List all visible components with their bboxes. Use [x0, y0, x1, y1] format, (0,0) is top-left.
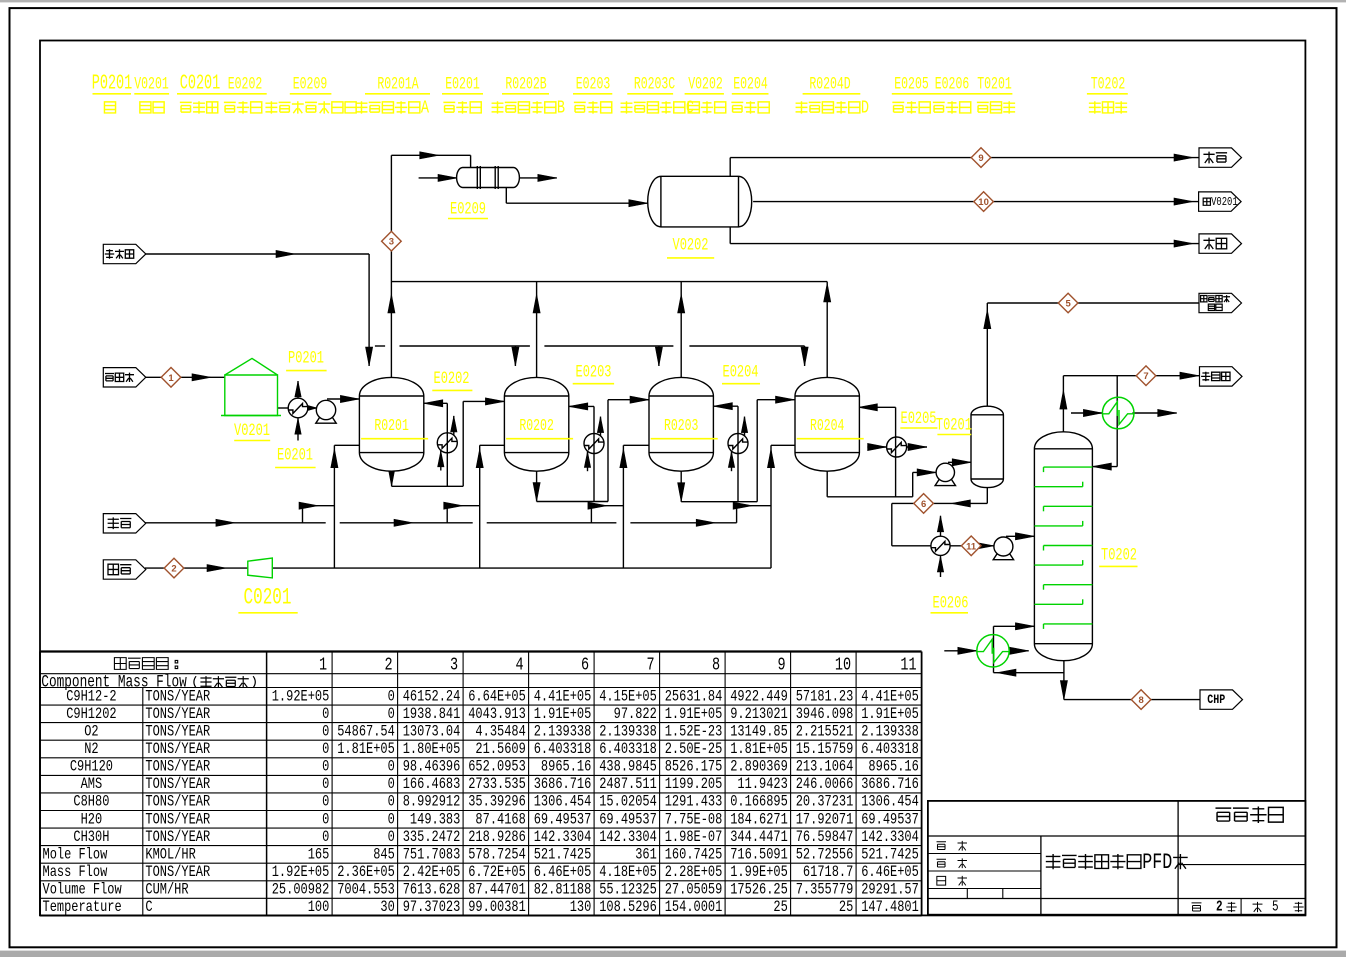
- svg-text:R0202B: R0202B: [505, 74, 546, 94]
- svg-text:1938.841: 1938.841: [403, 705, 461, 723]
- svg-text:335.2472: 335.2472: [403, 828, 461, 846]
- svg-text:H20: H20: [81, 811, 103, 829]
- svg-text:P0201: P0201: [288, 350, 324, 369]
- svg-text:C8H80: C8H80: [73, 793, 109, 811]
- svg-text:69.49537: 69.49537: [861, 811, 919, 829]
- svg-text:13073.04: 13073.04: [403, 723, 461, 741]
- svg-text:142.3304: 142.3304: [861, 828, 919, 846]
- svg-text:20.37231: 20.37231: [796, 793, 854, 811]
- svg-text:CUM/HR: CUM/HR: [145, 881, 188, 899]
- svg-text:6.46E+05: 6.46E+05: [534, 864, 592, 882]
- svg-text:521.7425: 521.7425: [861, 846, 919, 864]
- svg-text:O2: O2: [84, 723, 98, 741]
- svg-text:13149.85: 13149.85: [730, 723, 788, 741]
- svg-text:0: 0: [388, 688, 395, 706]
- svg-text:0: 0: [322, 741, 329, 759]
- svg-text:7.355779: 7.355779: [796, 881, 854, 899]
- svg-text:N2: N2: [84, 741, 98, 759]
- svg-text:97.822: 97.822: [614, 705, 657, 723]
- svg-text:2.42E+05: 2.42E+05: [403, 864, 461, 882]
- svg-text:344.4471: 344.4471: [730, 828, 788, 846]
- svg-text:V0202: V0202: [673, 237, 709, 256]
- svg-text:845: 845: [373, 846, 395, 864]
- svg-text:4: 4: [515, 655, 523, 675]
- svg-text:213.1064: 213.1064: [796, 758, 854, 776]
- svg-text:E0206: E0206: [933, 595, 969, 614]
- svg-text:438.9845: 438.9845: [599, 758, 657, 776]
- svg-text:Temperature: Temperature: [43, 899, 122, 917]
- svg-text:1: 1: [319, 655, 327, 675]
- svg-text:T0202: T0202: [1101, 547, 1137, 566]
- svg-text:2.139338: 2.139338: [861, 723, 919, 741]
- svg-text:6.403318: 6.403318: [534, 741, 592, 759]
- svg-text:184.6271: 184.6271: [730, 811, 788, 829]
- svg-text:C0201: C0201: [180, 72, 220, 96]
- svg-text:C9H12-2: C9H12-2: [66, 688, 116, 706]
- svg-text:218.9286: 218.9286: [468, 828, 526, 846]
- svg-text:55.12325: 55.12325: [599, 881, 657, 899]
- svg-text:A: A: [421, 98, 429, 118]
- svg-text:0: 0: [322, 705, 329, 723]
- svg-text:0: 0: [322, 723, 329, 741]
- svg-text:1.81E+05: 1.81E+05: [730, 741, 788, 759]
- svg-text:2.890369: 2.890369: [730, 758, 788, 776]
- svg-text:R0201A: R0201A: [377, 74, 418, 94]
- svg-text:87.4168: 87.4168: [475, 811, 525, 829]
- svg-text:578.7254: 578.7254: [468, 846, 526, 864]
- svg-text:6: 6: [921, 499, 926, 510]
- svg-text:TONS/YEAR: TONS/YEAR: [145, 864, 210, 882]
- svg-text:246.0066: 246.0066: [796, 776, 854, 794]
- svg-text:E0206: E0206: [935, 74, 969, 94]
- svg-text:6.403318: 6.403318: [861, 741, 919, 759]
- svg-text:149.383: 149.383: [410, 811, 460, 829]
- svg-text:C: C: [686, 98, 694, 118]
- svg-text:29291.57: 29291.57: [861, 881, 919, 899]
- svg-text:4.35484: 4.35484: [475, 723, 525, 741]
- svg-text:P0201: P0201: [92, 72, 132, 96]
- svg-text:0: 0: [388, 793, 395, 811]
- svg-text:TONS/YEAR: TONS/YEAR: [145, 758, 210, 776]
- svg-text:B: B: [557, 98, 565, 118]
- svg-text:46152.24: 46152.24: [403, 688, 461, 706]
- svg-text:1.80E+05: 1.80E+05: [403, 741, 461, 759]
- svg-text:C: C: [145, 899, 152, 917]
- svg-text:25631.84: 25631.84: [665, 688, 723, 706]
- svg-text:2.139338: 2.139338: [599, 723, 657, 741]
- svg-text:61718.7: 61718.7: [803, 864, 853, 882]
- svg-text:8: 8: [712, 655, 720, 675]
- svg-text:T0201: T0201: [936, 417, 972, 436]
- svg-text:76.59847: 76.59847: [796, 828, 854, 846]
- svg-text:7613.628: 7613.628: [403, 881, 461, 899]
- svg-text:521.7425: 521.7425: [534, 846, 592, 864]
- svg-text:0: 0: [322, 793, 329, 811]
- svg-text:2: 2: [171, 564, 176, 575]
- svg-text:E0203: E0203: [576, 364, 612, 383]
- svg-text:0: 0: [322, 758, 329, 776]
- svg-text:87.44701: 87.44701: [468, 881, 526, 899]
- svg-text:E0202: E0202: [228, 74, 262, 94]
- svg-text:TONS/YEAR: TONS/YEAR: [145, 776, 210, 794]
- svg-text:100: 100: [308, 899, 330, 917]
- svg-text:3: 3: [389, 237, 394, 248]
- svg-text:5: 5: [1065, 299, 1071, 310]
- svg-text:11: 11: [966, 541, 977, 552]
- svg-text:3: 3: [450, 655, 458, 675]
- svg-text:8965.16: 8965.16: [868, 758, 918, 776]
- svg-text:R0201: R0201: [374, 417, 408, 436]
- svg-text:1291.433: 1291.433: [665, 793, 723, 811]
- svg-text:15.15759: 15.15759: [796, 741, 854, 759]
- svg-text:5: 5: [1272, 898, 1279, 915]
- svg-text:99.00381: 99.00381: [468, 899, 526, 917]
- svg-text:25: 25: [773, 899, 787, 917]
- svg-text:1.92E+05: 1.92E+05: [272, 688, 330, 706]
- svg-text:E0201: E0201: [445, 74, 479, 94]
- svg-text:361: 361: [635, 846, 657, 864]
- svg-text:0: 0: [388, 776, 395, 794]
- svg-text:2.36E+05: 2.36E+05: [337, 864, 395, 882]
- svg-text:716.5091: 716.5091: [730, 846, 788, 864]
- svg-text:3686.716: 3686.716: [534, 776, 592, 794]
- svg-text:2.215521: 2.215521: [796, 723, 854, 741]
- svg-text:6.64E+05: 6.64E+05: [468, 688, 526, 706]
- svg-text:E0205: E0205: [894, 74, 928, 94]
- svg-text:30: 30: [380, 899, 394, 917]
- svg-text:3946.098: 3946.098: [796, 705, 854, 723]
- svg-text:6.46E+05: 6.46E+05: [861, 864, 919, 882]
- svg-text:108.5296: 108.5296: [599, 899, 657, 917]
- svg-text:Mole Flow: Mole Flow: [43, 846, 108, 864]
- svg-text:17.92071: 17.92071: [796, 811, 854, 829]
- svg-text:1.91E+05: 1.91E+05: [534, 705, 592, 723]
- svg-text:4.15E+05: 4.15E+05: [599, 688, 657, 706]
- svg-text:PFD: PFD: [1142, 848, 1172, 874]
- svg-text:54867.54: 54867.54: [337, 723, 395, 741]
- svg-text:69.49537: 69.49537: [534, 811, 592, 829]
- svg-text:52.72556: 52.72556: [796, 846, 854, 864]
- svg-text:1: 1: [168, 373, 174, 384]
- svg-text:6: 6: [581, 655, 589, 675]
- svg-text:R0203C: R0203C: [634, 74, 675, 94]
- svg-text:E0201: E0201: [277, 447, 313, 466]
- svg-text:1.91E+05: 1.91E+05: [665, 705, 723, 723]
- svg-text:Mass Flow: Mass Flow: [43, 864, 108, 882]
- svg-text:751.7083: 751.7083: [403, 846, 461, 864]
- svg-text:25: 25: [839, 899, 853, 917]
- svg-text:TONS/YEAR: TONS/YEAR: [145, 688, 210, 706]
- svg-text:652.0953: 652.0953: [468, 758, 526, 776]
- svg-text:130: 130: [570, 899, 592, 917]
- svg-text:1306.454: 1306.454: [534, 793, 592, 811]
- svg-text:C0201: C0201: [244, 584, 292, 611]
- svg-text:0: 0: [322, 776, 329, 794]
- svg-text:TONS/YEAR: TONS/YEAR: [145, 793, 210, 811]
- svg-text:V0202: V0202: [688, 74, 722, 94]
- svg-text:E0204: E0204: [733, 74, 767, 94]
- svg-text:165: 165: [308, 846, 330, 864]
- svg-text:8526.175: 8526.175: [665, 758, 723, 776]
- svg-text:TONS/YEAR: TONS/YEAR: [145, 828, 210, 846]
- svg-text:R0203: R0203: [664, 417, 698, 436]
- svg-text:154.0001: 154.0001: [665, 899, 723, 917]
- svg-text:2.50E-25: 2.50E-25: [665, 741, 723, 759]
- svg-text:0.166895: 0.166895: [730, 793, 788, 811]
- svg-text:3686.716: 3686.716: [861, 776, 919, 794]
- svg-text:9: 9: [777, 655, 785, 675]
- svg-text:27.05059: 27.05059: [665, 881, 723, 899]
- svg-text:2733.535: 2733.535: [468, 776, 526, 794]
- svg-text:1.92E+05: 1.92E+05: [272, 864, 330, 882]
- svg-text:2: 2: [1216, 898, 1223, 915]
- svg-text:C9H120: C9H120: [70, 758, 113, 776]
- svg-text:2.139338: 2.139338: [534, 723, 592, 741]
- svg-text:147.4801: 147.4801: [861, 899, 919, 917]
- svg-text:CH30H: CH30H: [73, 828, 109, 846]
- svg-text:1199.205: 1199.205: [665, 776, 723, 794]
- svg-text:0: 0: [322, 828, 329, 846]
- svg-text:9: 9: [978, 153, 983, 164]
- svg-text:6.72E+05: 6.72E+05: [468, 864, 526, 882]
- svg-text:1.99E+05: 1.99E+05: [730, 864, 788, 882]
- svg-text:166.4683: 166.4683: [403, 776, 461, 794]
- svg-text:10: 10: [835, 655, 851, 675]
- svg-text:98.46396: 98.46396: [403, 758, 461, 776]
- svg-text:R0204: R0204: [810, 417, 844, 436]
- svg-text:142.3304: 142.3304: [534, 828, 592, 846]
- svg-text:35.39296: 35.39296: [468, 793, 526, 811]
- svg-text:8: 8: [1138, 695, 1143, 706]
- svg-text:KMOL/HR: KMOL/HR: [145, 846, 195, 864]
- svg-text:8.992912: 8.992912: [403, 793, 461, 811]
- svg-text:10: 10: [978, 197, 989, 208]
- svg-text:TONS/YEAR: TONS/YEAR: [145, 723, 210, 741]
- svg-text:7: 7: [646, 655, 654, 675]
- svg-text:1.98E-07: 1.98E-07: [665, 828, 723, 846]
- svg-text:1.52E-23: 1.52E-23: [665, 723, 723, 741]
- svg-text:CHP: CHP: [1207, 693, 1225, 708]
- svg-text:17526.25: 17526.25: [730, 881, 788, 899]
- svg-text:E0202: E0202: [434, 370, 470, 389]
- svg-text:7: 7: [1143, 371, 1148, 382]
- svg-text:TONS/YEAR: TONS/YEAR: [145, 705, 210, 723]
- svg-text:82.81188: 82.81188: [534, 881, 592, 899]
- svg-text:V0201: V0201: [1211, 196, 1238, 210]
- svg-text:6.403318: 6.403318: [599, 741, 657, 759]
- svg-text:E0205: E0205: [901, 410, 937, 429]
- svg-text:E0204: E0204: [723, 364, 759, 383]
- svg-text:T0202: T0202: [1091, 74, 1125, 94]
- svg-text:2487.511: 2487.511: [599, 776, 657, 794]
- svg-text:0: 0: [388, 758, 395, 776]
- svg-text:9.213021: 9.213021: [730, 705, 788, 723]
- svg-text:V0201: V0201: [234, 422, 270, 441]
- svg-text:21.5609: 21.5609: [475, 741, 525, 759]
- svg-text:4.41E+05: 4.41E+05: [861, 688, 919, 706]
- svg-text:7004.553: 7004.553: [337, 881, 395, 899]
- svg-text:8965.16: 8965.16: [541, 758, 591, 776]
- svg-text:C9H1202: C9H1202: [66, 705, 116, 723]
- svg-text:57181.23: 57181.23: [796, 688, 854, 706]
- svg-text:E0203: E0203: [576, 74, 610, 94]
- svg-text:0: 0: [388, 811, 395, 829]
- svg-text:TONS/YEAR: TONS/YEAR: [145, 811, 210, 829]
- svg-text:R0204D: R0204D: [809, 74, 850, 94]
- svg-text:0: 0: [388, 705, 395, 723]
- svg-text:69.49537: 69.49537: [599, 811, 657, 829]
- svg-text:4.41E+05: 4.41E+05: [534, 688, 592, 706]
- svg-text:25.00982: 25.00982: [272, 881, 330, 899]
- svg-text:AMS: AMS: [81, 776, 103, 794]
- svg-text:15.02054: 15.02054: [599, 793, 657, 811]
- svg-text:1.81E+05: 1.81E+05: [337, 741, 395, 759]
- svg-text:160.7425: 160.7425: [665, 846, 723, 864]
- svg-text:TONS/YEAR: TONS/YEAR: [145, 741, 210, 759]
- svg-text:E0209: E0209: [293, 74, 327, 94]
- svg-text:7.75E-08: 7.75E-08: [665, 811, 723, 829]
- svg-text:142.3304: 142.3304: [599, 828, 657, 846]
- svg-text:D: D: [861, 98, 869, 118]
- svg-text:0: 0: [322, 811, 329, 829]
- svg-text:2: 2: [384, 655, 392, 675]
- svg-text:2.28E+05: 2.28E+05: [665, 864, 723, 882]
- svg-text:1306.454: 1306.454: [861, 793, 919, 811]
- svg-text:4922.449: 4922.449: [730, 688, 788, 706]
- svg-text:R0202: R0202: [519, 417, 553, 436]
- svg-text:4043.913: 4043.913: [468, 705, 526, 723]
- svg-text:V0201: V0201: [134, 74, 168, 94]
- svg-text:E0209: E0209: [450, 201, 486, 220]
- svg-text:Volume Flow: Volume Flow: [43, 881, 123, 899]
- svg-text:97.37023: 97.37023: [403, 899, 461, 917]
- svg-text:11: 11: [900, 655, 916, 675]
- svg-text:T0201: T0201: [977, 74, 1011, 94]
- svg-text:11.9423: 11.9423: [737, 776, 787, 794]
- svg-text:0: 0: [388, 828, 395, 846]
- svg-text:1.91E+05: 1.91E+05: [861, 705, 919, 723]
- svg-text:4.18E+05: 4.18E+05: [599, 864, 657, 882]
